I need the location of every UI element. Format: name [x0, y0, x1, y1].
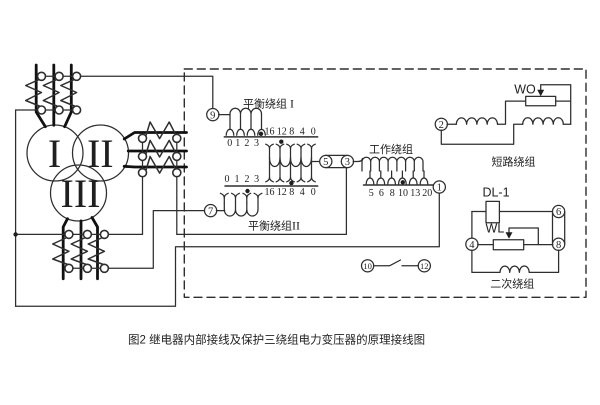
taps 0123 below bar1: [225, 126, 433, 199]
transformer circle I: [27, 125, 83, 181]
coil I tap cups: [226, 129, 265, 135]
svg-text:3: 3: [254, 174, 259, 185]
wire DL-1 to terminal 6: [499, 211, 552, 213]
bus wire top circles row (side III): [16, 233, 143, 235]
resistor WO box: [526, 96, 556, 105]
primary line 1 (side II): [124, 133, 186, 140]
wire coil B right to WO: [563, 123, 570, 125]
tap dot working winding: [401, 180, 405, 184]
CT zigzag 3 (side II): [146, 157, 177, 174]
short-circuit winding coil A: [456, 118, 497, 124]
WL wiper arrow head: [506, 232, 513, 238]
CT zigzag 2 (side III): [71, 238, 87, 265]
primary line 3 (side III): [92, 218, 98, 279]
wire terminal 3 to working coil: [353, 159, 362, 162]
svg-text:12: 12: [277, 126, 287, 137]
CT terminal circles (side III): [65, 230, 109, 272]
wire WL to terminal 8: [524, 244, 553, 246]
wire to DL-1 left: [472, 211, 486, 213]
CT group side II : thick primary lines: [124, 133, 186, 168]
coil II tap cups: [220, 193, 262, 198]
svg-text:8: 8: [289, 187, 294, 198]
working winding coil: [362, 157, 423, 171]
svg-text:WL: WL: [486, 222, 505, 236]
terminal 1 circle: [433, 181, 445, 193]
CT zigzag 3 (side I): [61, 80, 77, 107]
svg-text:0: 0: [311, 187, 316, 198]
CT zigzag 2 (side I): [43, 80, 59, 107]
middle winding stems: [270, 148, 312, 177]
svg-text:10: 10: [398, 188, 408, 199]
terminal 5 circle: [320, 155, 332, 167]
primary line 2 (side II): [128, 150, 186, 153]
terminal 2 circle: [435, 118, 447, 130]
svg-text:短路绕组: 短路绕组: [492, 155, 536, 169]
svg-text:8: 8: [390, 188, 395, 199]
svg-text:9: 9: [210, 110, 215, 121]
svg-text:I: I: [48, 131, 61, 176]
wire A : CT-II right column to terminal 3: [177, 167, 347, 234]
svg-text:4: 4: [469, 240, 475, 251]
svg-text:1: 1: [235, 174, 240, 185]
CT terminal circles (side I): [38, 72, 81, 114]
svg-text:5: 5: [369, 188, 374, 199]
svg-text:8: 8: [556, 240, 561, 251]
svg-text:16: 16: [265, 126, 275, 137]
svg-text:1: 1: [437, 183, 442, 194]
wire middle winding to terminal 5: [312, 161, 321, 163]
terminal 7 circle: [205, 205, 217, 217]
tap dot coil II: [245, 189, 249, 193]
svg-text:5: 5: [323, 157, 328, 168]
primary line 3 (side II): [124, 165, 186, 168]
terminal 6-8 link straps: [553, 212, 565, 245]
WL wiper arm wires: [509, 228, 538, 245]
contact switch terminal 12 circle: [418, 260, 430, 272]
switch blade: [374, 260, 419, 266]
wire coil A to resistor WO: [498, 101, 526, 124]
CT zigzag 1 (side I): [26, 80, 42, 107]
svg-text:4: 4: [300, 126, 305, 137]
terminal 3 circle: [341, 155, 353, 167]
WO wiper arm wires: [541, 85, 571, 125]
tap bar 1: [224, 136, 317, 138]
svg-text:II: II: [87, 131, 114, 176]
wire terminal 4 to WL: [478, 244, 494, 246]
coil II legs: [224, 198, 258, 203]
dashed relay box: [184, 69, 586, 297]
working winding tap cups: [366, 178, 428, 184]
svg-text:20: 20: [422, 188, 432, 199]
CT terminal circles (side II): [139, 134, 181, 176]
bus wire bottom circles row (side III) to wire up: [65, 211, 205, 269]
CT zigzag 1 (side II): [146, 122, 177, 139]
svg-text:III: III: [61, 171, 101, 216]
tap dot middle bottom: [289, 181, 293, 185]
wire terminal 7 to coil II: [216, 210, 224, 212]
svg-text:0: 0: [227, 138, 232, 149]
svg-text:3: 3: [345, 157, 350, 168]
transformer circle III: [51, 165, 107, 221]
terminal 6 circle: [553, 205, 565, 217]
CT zigzag 3 (side III): [88, 238, 104, 265]
WO wiper arrow head: [537, 90, 544, 96]
tap bar 2: [225, 185, 318, 187]
CT group side III : thick primary lines: [63, 218, 97, 279]
relay DL-1 box: [486, 201, 499, 222]
svg-text:4: 4: [300, 187, 305, 198]
svg-text:10: 10: [363, 261, 372, 271]
svg-text:2: 2: [439, 120, 444, 131]
resistor WL box: [493, 240, 523, 250]
CT zigzag 1 (side III): [53, 238, 69, 265]
left long vertical wire: [15, 110, 17, 306]
wire terminal 9 to balance coil I: [219, 114, 230, 116]
middle winding bottom forks: [266, 177, 316, 182]
tap dot middle top: [279, 140, 283, 144]
svg-text:0: 0: [225, 174, 230, 185]
terminal 5-3 link straps: [326, 155, 348, 167]
primary line 1 (side III): [63, 219, 67, 279]
svg-text:2: 2: [245, 174, 250, 185]
tap dot coil I: [259, 132, 263, 136]
terminal 4 circle: [466, 238, 478, 250]
svg-text:二次绕组: 二次绕组: [490, 277, 534, 291]
CT group side I : thick primary lines: [36, 65, 71, 127]
wire coil B left return to terminal 2: [441, 124, 522, 144]
svg-text:16: 16: [265, 187, 275, 198]
svg-text:7: 7: [208, 206, 213, 217]
wire down to terminal 4: [471, 212, 473, 239]
svg-text:12: 12: [420, 261, 429, 271]
short-circuit winding coil B: [523, 118, 564, 124]
svg-text:13: 13: [410, 188, 420, 199]
junction dot left vertical: [13, 232, 17, 236]
svg-text:平衡绕组II: 平衡绕组II: [248, 219, 300, 233]
transformer circle II: [73, 125, 129, 181]
terminal 9 circle: [207, 109, 219, 121]
working winding legs: [370, 171, 424, 178]
svg-text:图2 继电器内部接线及保护三绕组电力变压器的原理接线图: 图2 继电器内部接线及保护三绕组电力变压器的原理接线图: [128, 333, 425, 347]
wire terminal 2 to short-circuit coil A: [447, 123, 456, 125]
balance winding II coil: [224, 203, 258, 216]
bus wire bottom circles row (side I): [16, 109, 81, 111]
svg-text:12: 12: [277, 187, 287, 198]
primary line 1 (side I): [36, 65, 45, 127]
svg-text:DL-1: DL-1: [482, 186, 509, 200]
primary line 2 (side III): [80, 221, 83, 279]
svg-text:2: 2: [244, 138, 249, 149]
working winding tap bar: [364, 184, 435, 186]
column link wires (side II): [142, 138, 144, 234]
balance winding I coil: [230, 108, 262, 125]
contact switch terminal 10 circle: [362, 260, 374, 272]
svg-text:1: 1: [235, 138, 240, 149]
svg-text:8: 8: [289, 126, 294, 137]
svg-text:6: 6: [379, 188, 384, 199]
secondary winding coil: [500, 266, 529, 272]
svg-text:WO: WO: [514, 83, 536, 97]
svg-text:工作绕组: 工作绕组: [369, 142, 413, 156]
secondary winding loop: [472, 250, 559, 272]
svg-text:3: 3: [254, 138, 259, 149]
CT zigzag 2 (side II): [146, 140, 177, 157]
terminal 8 circle: [553, 238, 565, 250]
svg-text:平衡绕组 I: 平衡绕组 I: [243, 97, 294, 111]
roman numerals: [48, 131, 114, 216]
primary line 3 (side I): [65, 65, 72, 127]
bus wire top circles row (side I) to terminal 9: [42, 76, 213, 109]
primary line 2 (side I): [52, 65, 55, 125]
middle winding scallop loops: [270, 158, 312, 167]
coil I legs: [230, 125, 262, 130]
terminal numbers: [208, 110, 561, 271]
svg-text:6: 6: [556, 207, 561, 218]
middle working-section winding : top forks: [266, 144, 316, 148]
wire B : bottom return to terminal 1: [16, 193, 440, 306]
svg-text:0: 0: [311, 126, 316, 137]
